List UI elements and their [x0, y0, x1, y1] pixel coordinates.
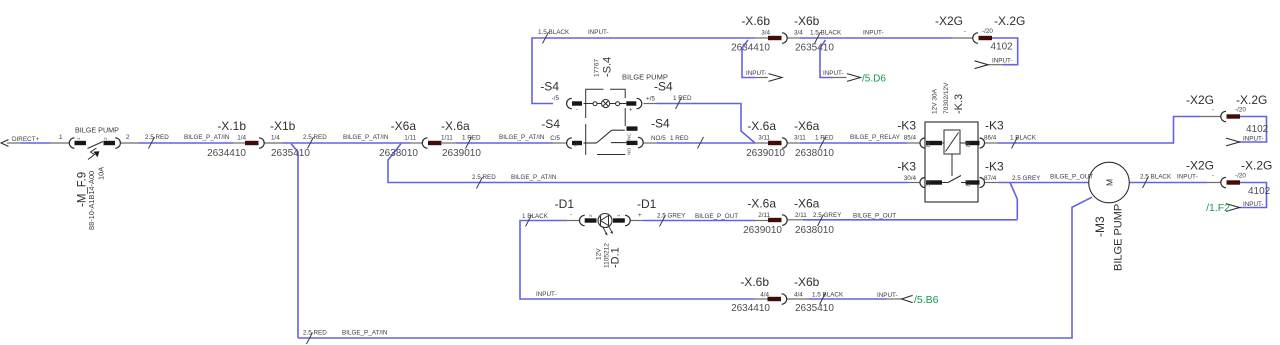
- svg-text:1: 1: [59, 134, 63, 141]
- svg-text:1 BLACK: 1 BLACK: [522, 213, 549, 220]
- svg-text:87: 87: [966, 181, 972, 187]
- svg-text:INPUT-: INPUT-: [536, 291, 557, 298]
- svg-text:-/5: -/5: [552, 95, 560, 102]
- svg-text:BILGE_P_AT/IN: BILGE_P_AT/IN: [343, 134, 389, 141]
- svg-text:2/11: 2/11: [795, 212, 807, 219]
- connector -X.6b / -X6b pin 3/4 top: [731, 14, 884, 54]
- svg-text:2.5 RED: 2.5 RED: [472, 174, 496, 181]
- svg-text:INPUT-: INPUT-: [1243, 136, 1264, 143]
- svg-text:1/11: 1/11: [404, 135, 416, 142]
- svg-text:86/4: 86/4: [984, 135, 997, 142]
- svg-text:2638010: 2638010: [795, 148, 834, 159]
- svg-text:-: -: [576, 108, 578, 114]
- svg-text:-X.2G: -X.2G: [1236, 93, 1267, 107]
- wire motor to -X2G lower row: [1129, 182, 1221, 184]
- motor -M3 BILGE PUMP: [1089, 162, 1130, 271]
- svg-text:-X.6b: -X.6b: [740, 275, 769, 289]
- svg-text:-X2G: -X2G: [1186, 93, 1214, 107]
- svg-text:NC: NC: [627, 133, 633, 140]
- svg-text:1: 1: [76, 137, 82, 140]
- svg-text:2: 2: [126, 134, 130, 141]
- wire D1 riser and cathode lead: [520, 221, 768, 300]
- svg-text:INPUT-: INPUT-: [863, 30, 884, 37]
- svg-text:17767: 17767: [594, 59, 601, 77]
- svg-text:-X.6a: -X.6a: [441, 119, 470, 133]
- svg-text:85/4: 85/4: [904, 135, 917, 142]
- connector -X2G / -X.2G upper right 4102: [1186, 93, 1269, 135]
- wire label 2.5 GREY BILGE_P_OUT before motor: [0, 0, 1, 1]
- connector -X.1b / -X1b pin 1/4: [207, 119, 310, 159]
- svg-text:2.5 GREY: 2.5 GREY: [1012, 175, 1041, 182]
- wire label BILGE_P_AT/IN before -S4 C: [499, 134, 545, 141]
- svg-text:2638010: 2638010: [379, 148, 418, 159]
- svg-text:-: -: [964, 28, 966, 35]
- svg-text:-: -: [570, 212, 572, 219]
- off-page arrow INPUT- /5.B6 bottom: [877, 292, 939, 306]
- svg-text:BILGE_P_OUT: BILGE_P_OUT: [695, 213, 738, 220]
- svg-text:NO/5: NO/5: [651, 135, 666, 142]
- svg-text:4102: 4102: [991, 42, 1014, 53]
- svg-text:INPUT-: INPUT-: [877, 292, 898, 299]
- svg-text:2635410: 2635410: [795, 303, 834, 314]
- svg-text:-X.6a: -X.6a: [747, 197, 776, 211]
- wire branch -X6a to relay 30 row: [388, 144, 920, 183]
- svg-text:BILGE_P_AT/IN: BILGE_P_AT/IN: [184, 134, 230, 141]
- svg-text:INPUT-: INPUT-: [746, 70, 767, 77]
- off-page arrow INPUT- right upper: [1226, 136, 1264, 146]
- wire label 2.5 RED BILGE_P_AT/IN bottom bus: [303, 330, 388, 345]
- svg-text:2634410: 2634410: [207, 148, 246, 159]
- svg-text:-X6b: -X6b: [794, 14, 820, 28]
- svg-text:2.5 RED: 2.5 RED: [145, 134, 169, 141]
- svg-text:INPUT-: INPUT-: [823, 70, 844, 77]
- svg-text:-X.6b: -X.6b: [741, 14, 770, 28]
- svg-text:85: 85: [966, 141, 972, 147]
- wire -X6b 3/4 to -X2G top: [787, 37, 973, 39]
- wire label 1 BLACK after relay 86: [1010, 135, 1037, 149]
- relay -K3 12V 30A 70302/12V: [897, 82, 1093, 202]
- svg-text:3/4: 3/4: [794, 30, 803, 37]
- svg-text:-K3: -K3: [985, 160, 1004, 174]
- svg-text:+/5: +/5: [646, 95, 655, 102]
- connector -X2G / -X.2G lower right 4102: [1186, 159, 1272, 198]
- wire -S4 NO to -X.6a 3/11: [644, 142, 769, 144]
- svg-text:2639010: 2639010: [743, 225, 782, 236]
- svg-text:-M3: -M3: [1093, 216, 1107, 237]
- LED -D1 12V 1105212: [522, 197, 738, 268]
- svg-text:-X.1b: -X.1b: [217, 119, 246, 133]
- off-page arrow INPUT- top right: [975, 58, 1013, 69]
- wire label 2.5 RED BILGE_P_AT/IN before -X.1b: [145, 134, 230, 149]
- connector -X.6a / -X6a pin 2/11: [743, 197, 896, 237]
- svg-text:2635410: 2635410: [795, 43, 834, 54]
- wire drop below -X.6b to INPUT- arrow: [742, 40, 768, 78]
- svg-text:-K3: -K3: [897, 119, 916, 133]
- svg-text:2638010: 2638010: [795, 225, 834, 236]
- wire top net riser to lamp row: [532, 38, 768, 104]
- svg-text:-X2G: -X2G: [935, 14, 963, 28]
- svg-text:3/4: 3/4: [761, 30, 770, 37]
- wire -X6b 4/4 to /5.B6 arrow: [787, 298, 902, 300]
- svg-text:30: 30: [926, 181, 932, 187]
- svg-text:-: -: [1212, 107, 1214, 114]
- svg-text:4102: 4102: [1246, 124, 1269, 135]
- wire label INPUT- on D1 return row: [536, 291, 557, 298]
- svg-text:3/11: 3/11: [794, 135, 806, 142]
- wire label 2.5 BLACK INPUT- after motor: [1140, 174, 1198, 189]
- svg-text:M: M: [1105, 179, 1115, 186]
- svg-text:2: 2: [103, 137, 109, 140]
- svg-text:-X1b: -X1b: [270, 119, 296, 133]
- svg-text:BILGE_P_OUT: BILGE_P_OUT: [853, 213, 896, 220]
- svg-text:1: 1: [616, 214, 622, 217]
- svg-text:-X6b: -X6b: [794, 275, 820, 289]
- svg-text:BILGE_P_RELAY: BILGE_P_RELAY: [850, 134, 901, 141]
- svg-text:2639010: 2639010: [442, 148, 481, 159]
- svg-text:3/11: 3/11: [758, 135, 770, 142]
- svg-text:-S4: -S4: [541, 117, 560, 131]
- svg-text:-S4: -S4: [540, 80, 559, 94]
- svg-text:2635410: 2635410: [271, 148, 310, 159]
- svg-text:-: -: [1212, 173, 1214, 180]
- svg-text:-X6a: -X6a: [794, 119, 820, 133]
- svg-text:2639010: 2639010: [746, 148, 785, 159]
- wire -X1b to -X6a: [264, 142, 423, 144]
- circuit breaker -M_F.9 BILGE PUMP 10A: [59, 126, 130, 231]
- wire relay 87 to motor: [985, 182, 1089, 184]
- wire breaker to -X.1b: [121, 142, 245, 144]
- svg-text:INPUT-: INPUT-: [588, 29, 609, 36]
- svg-text:-X6a: -X6a: [391, 119, 417, 133]
- wire -X6a 2/11 BILGE_P_OUT to relay 87 node: [787, 219, 1017, 221]
- off-page arrow INPUT- below -X.6b: [746, 70, 782, 81]
- wire -X.2G upper loop to INPUT- arrow: [1238, 117, 1267, 143]
- svg-text:INPUT-: INPUT-: [1243, 201, 1264, 208]
- wire label BILGE_P_RELAY: [850, 134, 901, 141]
- svg-text:-K3: -K3: [897, 160, 916, 174]
- svg-text:12V: 12V: [596, 248, 603, 260]
- svg-text:/1.F2: /1.F2: [1206, 202, 1230, 214]
- svg-text:BILGE_P_AT/IN: BILGE_P_AT/IN: [511, 174, 557, 181]
- wire lamp + output joining NO row: [644, 104, 756, 144]
- svg-text:88-10-A1B14-A00: 88-10-A1B14-A00: [87, 171, 96, 230]
- svg-text:-D1: -D1: [637, 197, 657, 211]
- svg-text:1.5 BLACK: 1.5 BLACK: [812, 292, 844, 299]
- svg-text:2.5 GREY: 2.5 GREY: [813, 212, 842, 219]
- svg-text:1/4: 1/4: [271, 135, 280, 142]
- node branch 87 output down to BILGE_P_OUT row: [1010, 183, 1017, 220]
- svg-text:-X.2G: -X.2G: [1241, 159, 1272, 173]
- svg-text:70302/12V: 70302/12V: [943, 82, 950, 114]
- wire relay 85 to -X2G row: [985, 117, 1221, 144]
- svg-text:1 BLACK: 1 BLACK: [1010, 135, 1037, 142]
- wire label 2.5 RED BILGE_P_AT/IN after -X1b: [303, 134, 389, 149]
- svg-text:BILGE PUMP: BILGE PUMP: [75, 126, 119, 135]
- svg-text:/5.B6: /5.B6: [914, 294, 939, 306]
- svg-text:BILGE_P_OUT: BILGE_P_OUT: [1050, 174, 1093, 181]
- svg-text:1/4: 1/4: [237, 135, 246, 142]
- wire D1 anode to -X.6a 2/11: [630, 220, 768, 222]
- svg-text:/5.D6: /5.D6: [862, 74, 886, 85]
- wire motor return to bottom bus: [298, 197, 1092, 338]
- svg-text:2.5 GREY: 2.5 GREY: [657, 213, 686, 220]
- svg-text:-X.6a: -X.6a: [747, 119, 776, 133]
- svg-text:1/11: 1/11: [441, 135, 453, 142]
- wire DIRECT+ feed to breaker: [7, 142, 69, 144]
- connector -X6a / -X.6a pin 1/11: [379, 119, 481, 159]
- float switch -S.4 17767 BILGE PUMP lamp contacts: [540, 57, 703, 155]
- svg-text:DIRECT+: DIRECT+: [12, 136, 39, 143]
- wire -X.2G top loop to INPUT- arrow: [988, 38, 1018, 65]
- svg-text:2.5 RED: 2.5 RED: [303, 134, 327, 141]
- svg-text:-/20: -/20: [982, 28, 993, 35]
- svg-text:BILGE_P_AT/IN: BILGE_P_AT/IN: [499, 134, 545, 141]
- wire label 2.5 RED BILGE_P_AT/IN on relay 30 row: [472, 174, 557, 189]
- svg-text:INPUT-: INPUT-: [1177, 174, 1198, 181]
- svg-text:-D1: -D1: [555, 197, 575, 211]
- svg-text:-X6a: -X6a: [794, 197, 820, 211]
- svg-text:2: 2: [588, 214, 594, 217]
- svg-text:1.5 BLACK: 1.5 BLACK: [538, 29, 570, 36]
- svg-text:-X2G: -X2G: [1186, 159, 1214, 173]
- connector -X2G / -X.2G top right 4102: [935, 14, 1025, 53]
- svg-text:10A: 10A: [97, 167, 106, 180]
- svg-text:-K3: -K3: [985, 119, 1004, 133]
- connector -X.6b / -X6b pin 4/4 bottom: [731, 275, 844, 314]
- wire drop below -X6b to /5.D6 arrow: [820, 40, 847, 78]
- svg-text:86: 86: [926, 141, 932, 147]
- svg-text:NO: NO: [627, 148, 633, 155]
- wire -X.6a to -S4 C contact: [442, 142, 567, 144]
- svg-text:BILGE_P_AT/IN: BILGE_P_AT/IN: [342, 330, 388, 337]
- svg-text:1 RED: 1 RED: [670, 135, 689, 142]
- svg-text:INPUT-: INPUT-: [992, 58, 1013, 65]
- svg-text:-/20: -/20: [1235, 173, 1246, 180]
- wire label 1.5 BLACK INPUT- top left: [538, 29, 609, 44]
- svg-text:C/5: C/5: [550, 135, 560, 142]
- svg-text:2.5 BLACK: 2.5 BLACK: [1140, 174, 1172, 181]
- svg-text:12V 30A: 12V 30A: [932, 88, 939, 114]
- svg-text:-K.3: -K.3: [953, 94, 965, 114]
- svg-text:2634410: 2634410: [731, 303, 770, 314]
- svg-text:BILGE PUMP: BILGE PUMP: [1113, 204, 1125, 271]
- svg-text:1 RED: 1 RED: [673, 95, 692, 102]
- svg-text:4102: 4102: [1248, 186, 1271, 197]
- off-page arrow INPUT- /5.D6 below -X6b: [823, 70, 886, 85]
- svg-text:1.5 BLACK: 1.5 BLACK: [810, 30, 842, 37]
- svg-text:87/4: 87/4: [984, 175, 997, 182]
- wire -X6a 3/11 to relay -K3 pin 86: [787, 142, 920, 144]
- connector -X.6a / -X6a pin 3/11: [746, 119, 834, 159]
- svg-text:2/11: 2/11: [758, 212, 770, 219]
- svg-text:-X.2G: -X.2G: [994, 14, 1025, 28]
- svg-text:-S.4: -S.4: [602, 57, 614, 77]
- svg-text:-S4: -S4: [654, 80, 673, 94]
- wire -X.2G lower loop to /1.F2 arrow: [1238, 183, 1267, 208]
- off-page arrow DIRECT+: [1, 136, 39, 146]
- svg-text:4/4: 4/4: [794, 292, 803, 299]
- svg-text:C: C: [573, 143, 579, 147]
- svg-text:2634410: 2634410: [731, 43, 770, 54]
- svg-text:30/4: 30/4: [904, 175, 917, 182]
- svg-text:4/4: 4/4: [760, 292, 769, 299]
- svg-text:-D.1: -D.1: [610, 247, 622, 268]
- node branch below -X1b: [291, 144, 298, 338]
- off-page arrow INPUT- /1.F2 right lower: [1206, 201, 1264, 214]
- svg-text:2.5 RED: 2.5 RED: [303, 330, 327, 337]
- svg-text:+: +: [629, 108, 633, 114]
- svg-text:+: +: [638, 212, 642, 219]
- svg-text:-/20: -/20: [1235, 107, 1246, 114]
- svg-text:-S4: -S4: [651, 117, 670, 131]
